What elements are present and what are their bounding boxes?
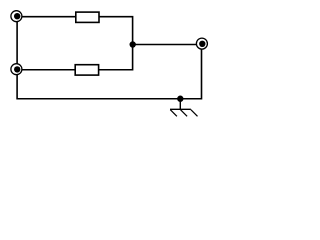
resistor R1 <box>76 12 99 22</box>
terminal P2 <box>11 64 22 75</box>
wire: R1 right to top corner, down to node A and R2 right side <box>99 17 133 70</box>
wire: left vertical rail P1 to P2 <box>16 17 18 70</box>
terminal P1 <box>11 11 22 22</box>
wire: terminal P1 to resistor R1 <box>17 16 77 18</box>
junction node A <box>130 41 136 47</box>
wire: node A to terminal P3 <box>133 44 202 46</box>
wire: P2 down, bottom rail, up to P3 <box>17 44 201 99</box>
resistor R2 <box>75 65 98 75</box>
terminal P3 <box>196 38 207 49</box>
wire: terminal P2 to resistor R2 <box>17 69 77 71</box>
ground <box>170 99 198 117</box>
ground junction dot <box>177 96 183 102</box>
